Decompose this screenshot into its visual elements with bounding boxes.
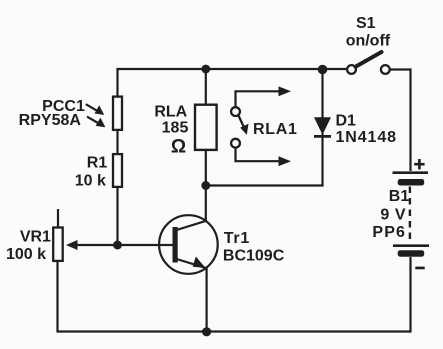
- svg-text:PP6: PP6: [372, 224, 406, 241]
- wire R1 to base node: [116, 188, 118, 245]
- diode D1: [314, 117, 331, 136]
- battery B1 lower long plate: [393, 244, 429, 247]
- svg-text:BC109C: BC109C: [223, 248, 285, 265]
- transistor Tr1 emitter stroke: [177, 259, 207, 268]
- node emitter / bottom rail: [202, 327, 211, 336]
- relay contact RLA1 upper terminal: [231, 107, 240, 116]
- svg-text:B1: B1: [389, 188, 410, 205]
- svg-text:S1: S1: [356, 15, 376, 32]
- svg-text:RLA1: RLA1: [253, 121, 298, 138]
- svg-text:100 k: 100 k: [6, 246, 46, 263]
- svg-text:RLA: RLA: [154, 104, 187, 121]
- wire top rail: [118, 69, 348, 96]
- potentiometer VR1 body: [53, 228, 63, 261]
- transistor Tr1 emitter arrow: [193, 257, 206, 268]
- node top rail / RLA branch: [201, 65, 210, 74]
- battery B1 plus sign: [414, 159, 424, 169]
- svg-text:185: 185: [162, 120, 189, 137]
- wire photocell to R1: [116, 131, 118, 153]
- wire emitter down: [206, 268, 208, 332]
- relay contact RLA1 moving arm: [238, 115, 248, 135]
- svg-text:1N4148: 1N4148: [336, 129, 397, 146]
- wire RLA branch top: [205, 69, 207, 104]
- wire bottom rail: [58, 257, 411, 332]
- transistor Tr1 circle: [159, 215, 218, 274]
- node collector / relay return: [201, 181, 210, 190]
- photocell PCC1 light arrow lower: [87, 117, 105, 128]
- photocell PCC1 body: [113, 97, 122, 130]
- resistor R1 body: [113, 154, 122, 187]
- relay coil RLA body: [195, 105, 217, 150]
- svg-text:VR1: VR1: [20, 229, 51, 246]
- wire switch to battery: [390, 70, 411, 172]
- battery B1 dashed middle: [409, 187, 411, 245]
- svg-text:on/off: on/off: [346, 33, 391, 50]
- switch S1 right terminal: [381, 65, 390, 74]
- svg-text:RPY58A: RPY58A: [19, 112, 82, 129]
- relay contact RLA1 upper throw arrow: [236, 86, 292, 107]
- photocell PCC1 light arrow upper: [86, 104, 104, 115]
- svg-text:R1: R1: [87, 155, 108, 172]
- wire RLA bottom to junction: [205, 151, 207, 221]
- wire junction to diode bottom corner: [206, 69, 323, 186]
- svg-text:Tr1: Tr1: [224, 230, 250, 247]
- svg-text:10 k: 10 k: [75, 172, 106, 189]
- wire VR1 top stub: [57, 209, 59, 227]
- node top rail / diode branch: [318, 65, 328, 75]
- wire base horizontal: [70, 244, 173, 246]
- battery B1 upper long plate: [393, 171, 429, 174]
- svg-text:Ω: Ω: [171, 137, 186, 158]
- transistor Tr1 base bar: [173, 227, 178, 263]
- node base / divider: [113, 241, 122, 250]
- svg-text:D1: D1: [336, 112, 357, 129]
- transistor Tr1 collector stroke: [177, 221, 207, 230]
- switch S1 left terminal: [347, 65, 356, 74]
- svg-text:9 V: 9 V: [380, 207, 406, 224]
- battery B1 minus sign: [415, 267, 424, 270]
- relay contact RLA1 lower throw arrow: [236, 148, 292, 166]
- battery B1 lower thick plate: [398, 250, 425, 257]
- battery B1 upper thick plate: [398, 179, 425, 186]
- switch S1 lever: [356, 52, 382, 67]
- relay contact RLA1 lower terminal: [231, 139, 240, 148]
- potentiometer VR1 wiper arrow: [66, 240, 78, 250]
